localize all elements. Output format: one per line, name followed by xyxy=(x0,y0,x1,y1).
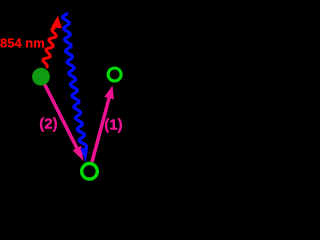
svg-text:854 nm: 854 nm xyxy=(0,35,45,50)
svg-text:(1): (1) xyxy=(104,117,122,134)
svg-text:(2): (2) xyxy=(39,116,57,133)
